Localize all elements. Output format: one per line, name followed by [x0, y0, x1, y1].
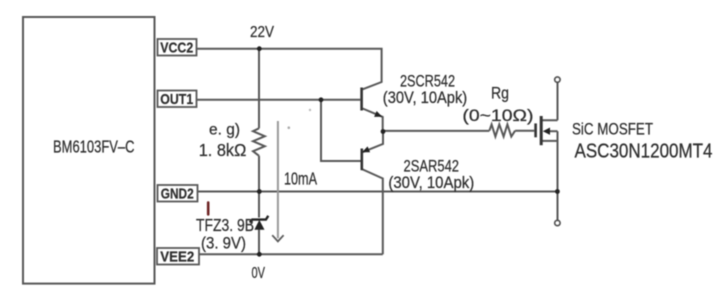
svg-text:(30V, 10Apk): (30V, 10Apk): [388, 174, 474, 192]
svg-text:BM6103FV–C: BM6103FV–C: [53, 137, 135, 157]
svg-text:OUT1: OUT1: [160, 91, 193, 108]
svg-text:SiC MOSFET: SiC MOSFET: [572, 119, 653, 138]
svg-text:(3. 9V): (3. 9V): [201, 234, 246, 252]
svg-text:GND2: GND2: [161, 185, 194, 202]
svg-text:e. g): e. g): [209, 122, 240, 139]
svg-text:0V: 0V: [252, 265, 266, 282]
svg-text:VEE2: VEE2: [160, 248, 194, 265]
svg-text:2SCR542: 2SCR542: [400, 71, 455, 90]
svg-text:TFZ3. 9B: TFZ3. 9B: [196, 215, 254, 235]
svg-text:1. 8kΩ: 1. 8kΩ: [199, 140, 247, 160]
svg-text:2SAR542: 2SAR542: [404, 156, 460, 175]
svg-text:ASC30N1200MT4: ASC30N1200MT4: [575, 140, 713, 162]
svg-text:(0~10Ω): (0~10Ω): [462, 107, 533, 125]
svg-text:10mA: 10mA: [284, 169, 317, 189]
svg-text:VCC2: VCC2: [160, 39, 193, 56]
svg-text:Rg: Rg: [491, 84, 509, 103]
svg-text:(30V, 10Apk): (30V, 10Apk): [383, 89, 467, 107]
svg-text:22V: 22V: [250, 24, 275, 41]
